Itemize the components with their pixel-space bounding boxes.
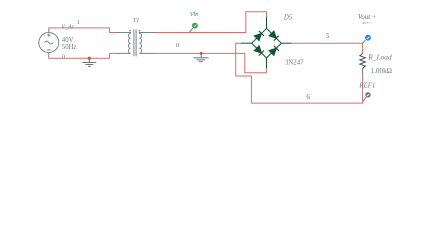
junction primary-bottom/ground [88,57,91,60]
label Vout + [358,14,376,21]
bridge rectifier D5 diamond and leads [241,17,292,69]
label net 0 (secondary) [176,42,179,49]
svg-text:0: 0 [176,42,179,49]
probe Vout + [363,35,371,43]
svg-text:3N247: 3N247 [285,59,304,66]
ac source V1 [39,29,59,57]
label V_Ac [61,25,74,31]
diode upper-left (anode left corner, cathode top corner) [254,31,264,41]
wire net 5: bridge + to resistor top [291,43,362,53]
svg-text:1: 1 [77,19,80,26]
label 3N247 [285,59,304,66]
ground (secondary side) [193,53,208,61]
svg-text:40V: 40V [62,37,74,44]
diode upper-right (anode top corner, cathode right corner) [269,31,279,41]
wire net 6: bridge - around to resistor bottom [236,43,363,103]
svg-text:V_Ac: V_Ac [61,25,74,31]
label 1.00k ohm [371,67,393,75]
wire net 1: source top to transformer primary top [49,28,116,33]
svg-text:REF1 -: REF1 - [361,21,372,25]
svg-text:1.00kΩ: 1.00kΩ [371,67,393,75]
label net 0 (primary) [62,55,65,61]
svg-text:T1: T1 [133,17,140,24]
transformer phase dot right [139,30,141,32]
diode lower-right (anode bottom corner, cathode right corner) [269,46,279,56]
label R_Load [367,53,392,62]
resistor R_Load zigzag [360,54,366,75]
svg-text:Vin: Vin [190,11,199,18]
transformer T1 [115,30,155,57]
label net 6 [306,93,310,101]
svg-text:0: 0 [62,55,65,61]
diode lower-left (anode left corner, cathode bottom corner) [254,46,264,56]
label T1 [133,17,140,24]
label D5 [283,14,293,21]
wire net Vin: secondary top to bridge top [156,12,267,33]
svg-text:REF1: REF1 [358,82,375,89]
label 50Hz [62,44,77,51]
label net 1 [77,19,80,26]
transformer phase dot left [129,30,131,32]
svg-text:5: 5 [326,32,330,40]
junction secondary-bottom/ground [200,52,203,55]
svg-text:6: 6 [306,93,310,101]
svg-text:50Hz: 50Hz [62,44,77,51]
ground (primary side) [82,58,96,66]
label REF1 - (small) [361,21,372,25]
svg-text:D5: D5 [283,14,293,21]
label 40V [62,37,74,44]
label REF1 [358,82,375,89]
wire net 0: secondary bottom to bridge bottom [156,53,267,72]
wire net 0: source bottom to transformer primary bottom [49,53,116,58]
probe REF1 [363,92,371,101]
label Vin [190,11,199,18]
label net 5 [326,32,330,40]
probe Vin [189,23,198,33]
svg-text:R_Load: R_Load [367,53,392,62]
